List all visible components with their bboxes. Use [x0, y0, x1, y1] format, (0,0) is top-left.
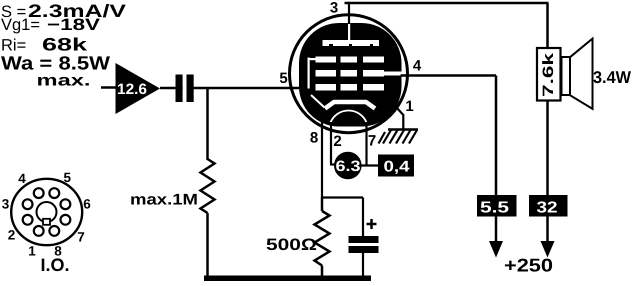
svg-text:4: 4	[413, 58, 422, 75]
svg-text:0,4: 0,4	[384, 159, 410, 176]
svg-text:5: 5	[64, 170, 72, 185]
svg-text:Wa = 8.5W: Wa = 8.5W	[1, 53, 110, 74]
svg-text:7.6k: 7.6k	[540, 52, 557, 97]
svg-text:3: 3	[330, 0, 338, 17]
svg-text:5.5: 5.5	[480, 200, 509, 217]
svg-text:max.1M: max.1M	[130, 192, 198, 209]
svg-text:−18V: −18V	[47, 16, 100, 34]
svg-text:32: 32	[537, 200, 558, 217]
svg-text:I.O.: I.O.	[40, 255, 69, 275]
svg-text:+250: +250	[504, 255, 553, 276]
svg-text:Ri=: Ri=	[1, 37, 26, 55]
svg-text:7: 7	[77, 230, 85, 245]
svg-text:2: 2	[333, 133, 341, 150]
svg-text:8: 8	[310, 130, 318, 147]
svg-text:500Ω: 500Ω	[266, 236, 317, 254]
svg-text:3.4W: 3.4W	[593, 68, 632, 87]
svg-text:12.6: 12.6	[117, 81, 147, 98]
svg-text:5: 5	[279, 70, 287, 87]
svg-text:7: 7	[368, 133, 376, 150]
svg-text:Vg1=: Vg1=	[1, 16, 40, 34]
svg-text:3: 3	[2, 197, 10, 212]
svg-text:1: 1	[405, 98, 413, 115]
svg-text:6.3: 6.3	[336, 158, 361, 175]
svg-text:max.: max.	[37, 73, 91, 90]
svg-text:6: 6	[83, 197, 91, 212]
svg-text:4: 4	[18, 171, 26, 186]
svg-text:68k: 68k	[42, 35, 88, 55]
svg-text:1: 1	[28, 244, 36, 259]
svg-text:2: 2	[8, 228, 16, 243]
